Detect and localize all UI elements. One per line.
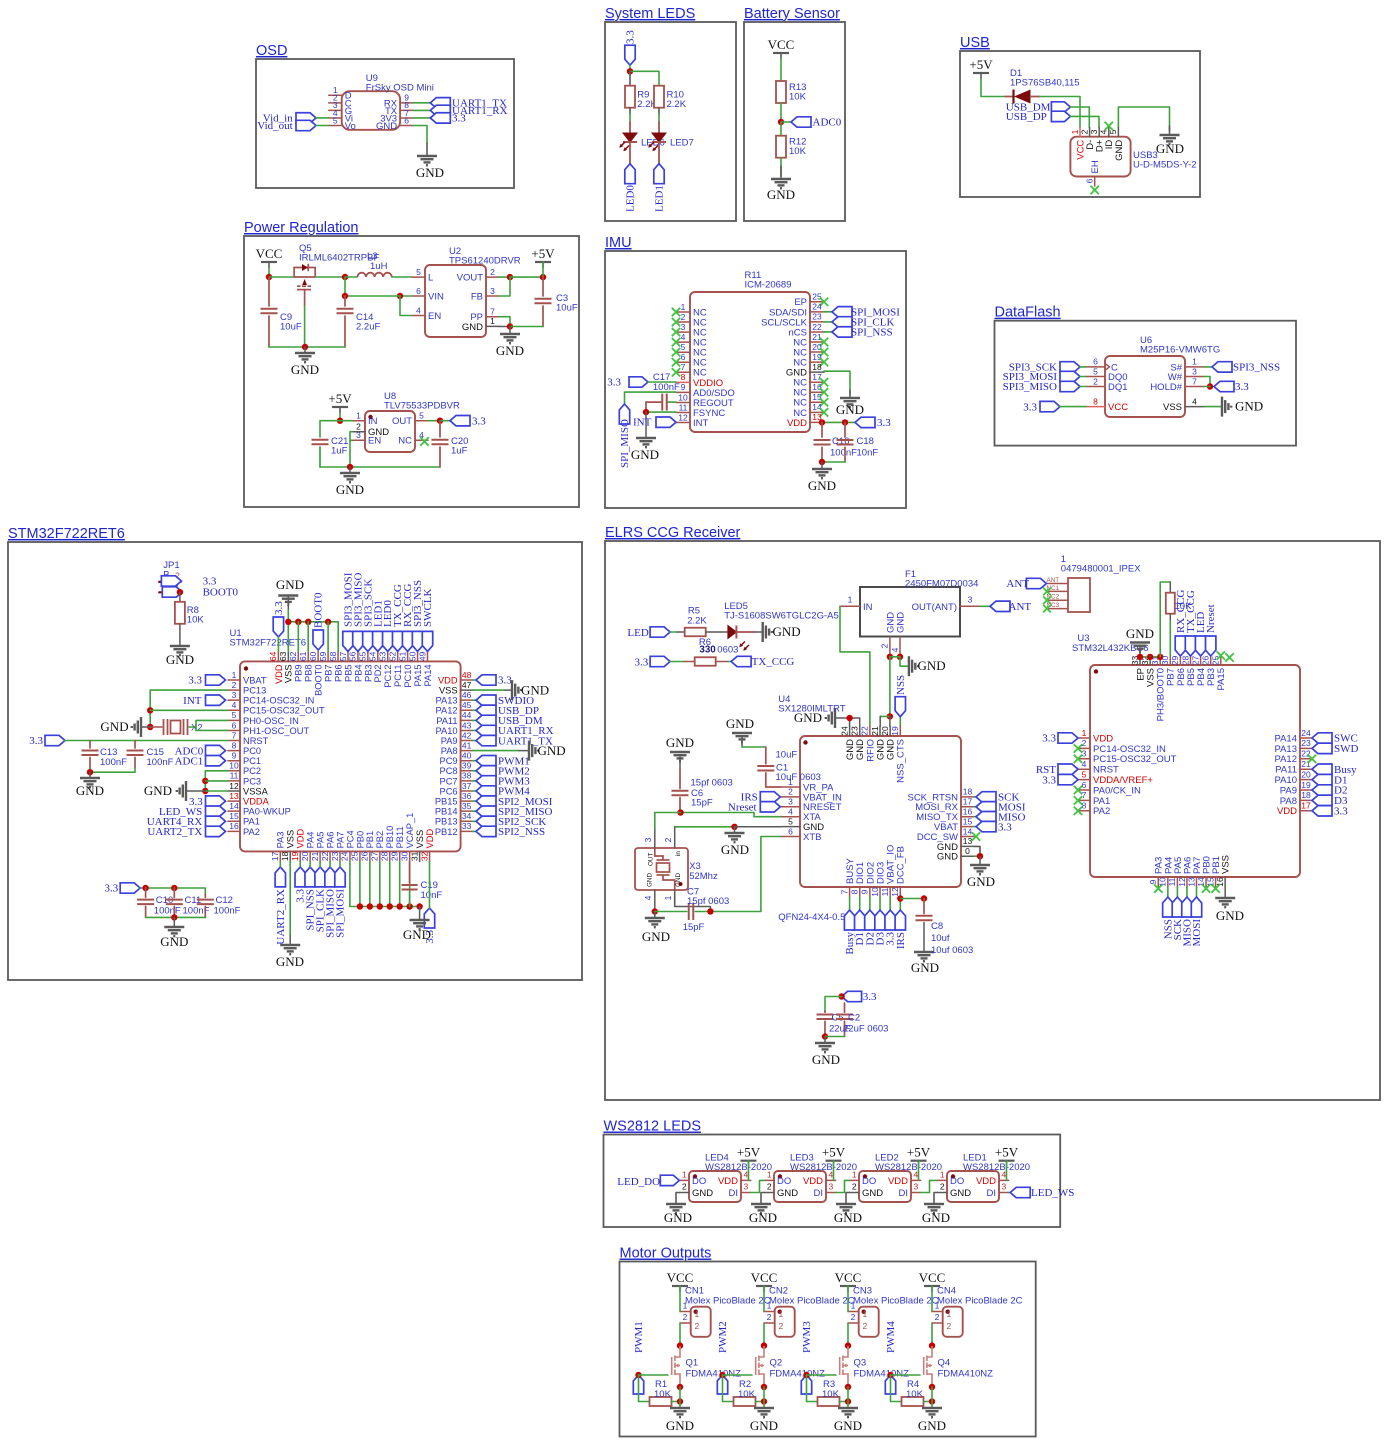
svg-text:23: 23	[1301, 738, 1311, 748]
wire	[473, 770, 476, 772]
wire VCC rail	[268, 268, 270, 277]
svg-text:6: 6	[1093, 357, 1098, 367]
capacitor C12 100nF	[204, 894, 206, 897]
svg-text:10uF: 10uF	[776, 750, 798, 761]
svg-text:1: 1	[767, 1170, 772, 1180]
svg-text:4: 4	[1099, 129, 1109, 134]
U3 pin 2 PC14-OSC32_IN	[1078, 747, 1090, 749]
connector pin NC2	[1047, 599, 1069, 601]
svg-text:3.3: 3.3	[1042, 733, 1056, 745]
wire	[173, 917, 175, 926]
capacitor C18 10nF	[844, 422, 846, 437]
R11 pin 10 REGOUT	[676, 401, 690, 403]
svg-text:IN: IN	[368, 416, 378, 427]
ground	[840, 398, 860, 407]
svg-text:PB6: PB6	[333, 664, 343, 682]
U3 pin 20 PA10	[1300, 779, 1312, 781]
svg-text:15pf 0603: 15pf 0603	[691, 778, 733, 789]
U3 pin 29 PB6	[1179, 656, 1181, 665]
svg-text:PC8: PC8	[440, 766, 458, 776]
svg-text:GND: GND	[922, 1210, 950, 1225]
U1 pin 61 PB8	[307, 651, 309, 661]
svg-text:DI: DI	[729, 1188, 739, 1199]
U4 pin 21 GND	[879, 726, 881, 736]
svg-text:GND: GND	[416, 165, 444, 180]
svg-text:GND: GND	[1114, 140, 1125, 161]
R11 pin 11 FSYNC	[676, 412, 690, 414]
wire	[150, 709, 228, 711]
junction	[177, 589, 183, 595]
svg-text:GND: GND	[773, 624, 801, 639]
wire	[869, 897, 871, 910]
wire	[473, 719, 476, 721]
CN3 pin 2	[848, 1322, 859, 1324]
svg-text:VDD: VDD	[1093, 733, 1113, 744]
U1 pin 52 PC11	[397, 651, 399, 661]
label 3.3	[885, 910, 895, 930]
svg-text:PC3: PC3	[243, 776, 261, 786]
USB3 pin 3 D+	[1098, 128, 1100, 137]
junction	[677, 1342, 683, 1348]
no-connect	[672, 348, 680, 356]
svg-text:GND: GND	[144, 783, 172, 798]
svg-text:BOOT0: BOOT0	[203, 586, 239, 598]
svg-text:GND: GND	[950, 1188, 971, 1199]
R11 pin 8 VDDIO	[676, 381, 690, 383]
junction	[357, 903, 363, 909]
svg-text:Molex PicoBlade 2C: Molex PicoBlade 2C	[937, 1296, 1023, 1307]
svg-text:2: 2	[1082, 738, 1087, 748]
svg-text:ANT: ANT	[1047, 577, 1060, 584]
no-connect	[820, 298, 828, 306]
svg-text:PA13: PA13	[436, 696, 458, 706]
connector pin NC3	[1047, 608, 1069, 610]
svg-text:PA2: PA2	[243, 827, 260, 837]
svg-text:DI: DI	[987, 1188, 997, 1199]
U1 pin 14 PA0-WKUP	[228, 810, 240, 812]
svg-text:2.2uF: 2.2uF	[356, 321, 380, 332]
label SPI2_NSS	[476, 826, 496, 836]
power VCC	[773, 52, 789, 54]
svg-text:GND: GND	[937, 852, 958, 863]
svg-text:5: 5	[232, 710, 237, 720]
svg-text:10K: 10K	[789, 91, 807, 102]
U3 pin 23 PA13	[1300, 747, 1312, 749]
svg-text:PB7: PB7	[324, 664, 334, 682]
U1 pin 11 PC3	[228, 780, 240, 782]
svg-text:PA9: PA9	[441, 736, 458, 746]
svg-text:16: 16	[812, 382, 822, 392]
svg-text:GND: GND	[160, 934, 188, 949]
label SPI3_SCK	[1060, 362, 1080, 372]
wire	[1196, 887, 1198, 897]
wire	[781, 121, 791, 123]
junction	[147, 724, 153, 730]
junction	[887, 713, 893, 719]
label ANT	[1026, 578, 1046, 588]
transistor Q2 FDMA410NZ	[756, 1346, 764, 1387]
svg-text:+5V: +5V	[969, 57, 993, 72]
wire	[339, 861, 341, 867]
ground	[732, 733, 752, 742]
svg-text:PB14: PB14	[435, 807, 458, 817]
svg-text:PA12: PA12	[1274, 754, 1297, 765]
svg-text:2: 2	[935, 1312, 940, 1322]
svg-text:47: 47	[462, 680, 472, 690]
svg-text:UART2_TX: UART2_TX	[147, 826, 202, 838]
resistor R6 330	[695, 657, 716, 666]
svg-text:PC14-OSC32_IN: PC14-OSC32_IN	[243, 696, 314, 706]
svg-text:2: 2	[940, 1182, 945, 1192]
wire GND pin18	[824, 371, 850, 395]
U1 pin 23 PA7	[339, 851, 341, 861]
label RX_CCG	[1175, 636, 1185, 656]
U9 pin 6 GND	[400, 125, 413, 127]
wire	[205, 780, 228, 782]
label ADC0	[206, 745, 226, 755]
wire	[880, 715, 890, 717]
wire	[849, 897, 851, 910]
svg-text:2: 2	[490, 267, 495, 277]
pin 1 DO	[679, 1179, 689, 1181]
svg-text:VSS: VSS	[284, 664, 294, 683]
U1 pin 27 PB2	[379, 851, 381, 861]
svg-text:NSS: NSS	[895, 675, 907, 695]
svg-text:46: 46	[462, 690, 472, 700]
svg-text:PA8: PA8	[1280, 796, 1297, 807]
R11 pin 25 EP	[810, 301, 824, 303]
wire	[629, 65, 631, 71]
svg-text:ANT: ANT	[1006, 578, 1029, 590]
wire	[931, 1323, 933, 1346]
U1 pin 10 PC2	[228, 770, 240, 772]
label LED_WS	[1010, 1187, 1030, 1197]
junction	[819, 419, 825, 425]
svg-text:22: 22	[860, 726, 870, 736]
junction	[202, 778, 208, 784]
wire DI to DO	[836, 1180, 850, 1192]
U1 pin 7 NRST	[228, 740, 240, 742]
svg-text:PWM1: PWM1	[633, 1321, 645, 1353]
svg-text:GND: GND	[895, 612, 906, 633]
wire	[1080, 366, 1086, 368]
svg-text:USB: USB	[960, 35, 990, 51]
svg-text:PB1: PB1	[365, 831, 375, 849]
svg-text:UART2_RX: UART2_RX	[275, 889, 287, 945]
wire VSS	[289, 861, 291, 935]
U1 pin 45 PA12	[461, 709, 473, 711]
U3 pin 9 PA3	[1157, 877, 1159, 887]
junction	[846, 715, 852, 721]
label SPI3_MOSI	[343, 631, 353, 651]
svg-text:IN: IN	[863, 602, 873, 613]
pin 2 GND	[764, 1192, 774, 1194]
svg-text:32: 32	[419, 851, 429, 861]
svg-text:9: 9	[860, 889, 870, 894]
svg-text:38: 38	[462, 771, 472, 781]
section System LEDS	[605, 22, 736, 221]
label UART2_RX	[275, 867, 285, 887]
svg-text:GND: GND	[538, 743, 566, 758]
svg-text:TJ-S1608SW6TGLC2G-A5: TJ-S1608SW6TGLC2G-A5	[724, 610, 839, 621]
wire	[979, 856, 981, 864]
junction	[142, 885, 148, 891]
wire Q5 gate to ground	[304, 290, 306, 306]
U1 pin 30 VCAP_1	[409, 851, 411, 861]
svg-text:SPI2_NSS: SPI2_NSS	[498, 826, 545, 838]
svg-text:21: 21	[812, 332, 822, 342]
svg-text:PC6: PC6	[440, 786, 458, 796]
wire	[825, 1036, 845, 1038]
ground	[754, 1408, 774, 1417]
svg-text:IRS: IRS	[895, 932, 907, 949]
svg-text:in: in	[675, 851, 682, 856]
U1 pin 21 PA5	[319, 851, 321, 861]
wire	[833, 1161, 835, 1181]
svg-text:1: 1	[779, 1309, 784, 1319]
U3 pin 32 VSS	[1149, 656, 1151, 665]
U1 pin 53 PC12	[387, 651, 389, 661]
wire	[277, 637, 279, 651]
svg-text:PC4: PC4	[345, 830, 355, 848]
junction	[842, 419, 848, 425]
svg-text:IMU: IMU	[605, 235, 632, 251]
wire IN to RFIO	[840, 606, 870, 726]
U9 pin 9 RX	[400, 102, 413, 104]
svg-text:11: 11	[230, 771, 239, 781]
junction	[929, 1342, 935, 1348]
svg-text:3.3: 3.3	[998, 821, 1012, 833]
svg-text:VCC: VCC	[835, 1270, 862, 1285]
svg-text:+5V: +5V	[328, 391, 352, 406]
svg-text:4: 4	[681, 332, 686, 342]
wire	[706, 631, 728, 633]
svg-text:6: 6	[1085, 178, 1095, 183]
wire	[974, 796, 976, 798]
wire to R	[723, 1375, 734, 1402]
svg-text:GND: GND	[862, 1188, 883, 1199]
label 3.3	[161, 576, 181, 586]
U3 pin 31 PH3/BOOT0	[1159, 656, 1161, 665]
U3 pin 33 EP	[1139, 656, 1141, 665]
svg-text:1uF: 1uF	[451, 445, 468, 456]
U1 pin 15 PA1	[228, 820, 240, 822]
svg-text:42: 42	[462, 730, 472, 740]
wire	[389, 861, 391, 906]
svg-text:59: 59	[318, 651, 328, 661]
U1 pin 51 PC10	[407, 651, 409, 661]
U1 pin 43 PA10	[461, 729, 473, 731]
svg-text:PC7: PC7	[440, 776, 458, 786]
svg-text:GND: GND	[276, 954, 304, 969]
wire	[931, 1387, 933, 1407]
X3 pin 2	[674, 827, 676, 848]
label D1	[855, 910, 865, 930]
ground	[295, 353, 315, 362]
wire	[320, 421, 340, 437]
capacitor C14 2.2uF	[344, 296, 346, 306]
svg-text:SPI3_NSS: SPI3_NSS	[1233, 362, 1280, 374]
R11 pin 3 NC	[676, 331, 690, 333]
U4 pin 10 DIO3	[879, 887, 881, 897]
svg-text:8: 8	[681, 372, 686, 382]
R11 pin 14 NC	[810, 411, 824, 413]
U1 pin 9 PC1	[228, 760, 240, 762]
svg-text:LED_WS: LED_WS	[1031, 1187, 1074, 1199]
capacitor C19 10nF	[409, 861, 411, 883]
ground	[645, 918, 665, 927]
U4 pin 2 VBAT_IN	[781, 796, 800, 798]
crystal X2	[150, 726, 162, 728]
wire	[679, 1387, 681, 1407]
label 3.3	[842, 991, 862, 1001]
svg-text:22: 22	[812, 322, 822, 332]
no-connect	[1225, 653, 1233, 661]
label MOSI	[1191, 897, 1201, 917]
wire	[319, 861, 321, 867]
svg-text:PC14-OSC32_IN: PC14-OSC32_IN	[1093, 744, 1166, 755]
svg-text:PC9: PC9	[440, 756, 458, 766]
ground	[177, 781, 186, 801]
svg-text:100nF: 100nF	[214, 906, 241, 917]
svg-text:1: 1	[851, 1301, 856, 1311]
svg-text:VDD: VDD	[1277, 806, 1297, 817]
svg-text:29: 29	[1170, 656, 1180, 666]
capacitor C15 100nF	[134, 741, 136, 749]
wire FSYNC	[646, 411, 676, 413]
svg-text:15: 15	[963, 816, 973, 826]
label INT	[206, 695, 226, 705]
svg-text:1: 1	[1070, 129, 1080, 134]
ground	[1160, 135, 1180, 144]
capacitor C10 100nF	[145, 888, 147, 897]
svg-text:2: 2	[1079, 129, 1089, 134]
U1 pin 58 PB6	[337, 651, 339, 661]
wire	[754, 631, 763, 633]
junction	[305, 619, 311, 625]
label SPI3_MISO	[1060, 381, 1080, 391]
svg-text:+5V: +5V	[995, 1145, 1019, 1160]
svg-text:3.3: 3.3	[1235, 381, 1249, 393]
svg-text:SPI_MISO: SPI_MISO	[619, 419, 631, 468]
ground	[922, 1408, 942, 1417]
wire	[146, 916, 206, 918]
svg-text:17: 17	[270, 851, 280, 861]
R11 pin 2 NC	[676, 321, 690, 323]
U9 pin 3 G	[329, 109, 342, 111]
no-connect	[1074, 786, 1082, 794]
svg-text:6: 6	[404, 115, 409, 125]
svg-text:GND: GND	[808, 478, 836, 493]
svg-text:GND: GND	[692, 1188, 713, 1199]
svg-text:VCC: VCC	[667, 1270, 694, 1285]
U1 pin 35 PB14	[461, 810, 473, 812]
svg-text:100nF: 100nF	[147, 757, 174, 768]
wire	[189, 720, 228, 727]
svg-text:25: 25	[350, 851, 360, 861]
no-connect	[672, 358, 680, 366]
label UART1_RX	[476, 725, 496, 735]
label D3	[875, 910, 885, 930]
svg-text:SPI_NSS: SPI_NSS	[851, 327, 893, 339]
svg-text:330: 330	[699, 645, 716, 656]
wire	[499, 326, 510, 328]
wire	[1186, 887, 1188, 897]
LED LED7	[658, 122, 660, 133]
wire	[349, 467, 351, 472]
svg-text:56: 56	[348, 651, 358, 661]
svg-text:Q2: Q2	[770, 1358, 783, 1369]
svg-text:10nF: 10nF	[857, 448, 879, 459]
svg-text:GND: GND	[276, 577, 304, 592]
ground	[970, 865, 990, 874]
capacitor C17 100nF	[668, 401, 676, 403]
no-connect	[820, 408, 828, 416]
svg-text:DI: DI	[899, 1188, 909, 1199]
svg-text:2.2K: 2.2K	[667, 99, 687, 110]
U3 pin 6 PA0/CK_IN	[1078, 789, 1090, 791]
capacitor C16 100nF	[821, 422, 823, 437]
svg-text:54: 54	[368, 651, 378, 661]
wire	[734, 827, 736, 832]
svg-text:LED: LED	[627, 627, 648, 639]
ground	[132, 717, 141, 737]
wire bottom bus	[350, 861, 420, 906]
svg-text:GND: GND	[664, 1210, 692, 1225]
wire GND	[934, 1193, 937, 1204]
ground	[417, 156, 437, 165]
ground	[636, 438, 656, 447]
svg-text:51: 51	[397, 651, 407, 661]
svg-text:1: 1	[1192, 357, 1197, 367]
junction	[845, 1398, 851, 1404]
wire	[1080, 376, 1086, 378]
R11 pin 12 INT	[676, 422, 690, 424]
svg-text:GND: GND	[812, 1052, 840, 1067]
svg-text:26: 26	[1201, 656, 1211, 666]
wire	[309, 861, 311, 867]
svg-text:LED1: LED1	[654, 185, 666, 212]
svg-text:1: 1	[490, 316, 495, 326]
junction	[302, 344, 308, 350]
U6 pin 2 DQ1	[1086, 386, 1105, 388]
U4 pin 9 DIO2	[869, 887, 871, 897]
ground	[278, 596, 298, 605]
U1 pin 5 PH0-OSC_IN	[228, 719, 240, 721]
label PWM2	[476, 766, 496, 776]
label SPI_NSS	[305, 867, 315, 887]
ground	[838, 1408, 858, 1417]
junction	[627, 68, 633, 74]
svg-text:VSS: VSS	[1221, 855, 1232, 874]
wire	[339, 413, 341, 421]
svg-text:DI: DI	[814, 1188, 824, 1199]
USB3 pin 5 GND	[1117, 128, 1119, 137]
svg-text:TPS61240DRVR: TPS61240DRVR	[449, 255, 521, 266]
svg-text:2: 2	[681, 312, 686, 322]
section OSD	[256, 59, 514, 188]
label 3.3	[976, 821, 996, 831]
capacitor C7 15pF	[655, 911, 687, 913]
wire	[289, 936, 291, 944]
power VCC channel 3	[840, 1285, 856, 1287]
svg-text:VBAT: VBAT	[243, 675, 267, 685]
svg-text:PB8: PB8	[304, 664, 314, 682]
label ANT	[990, 601, 1010, 611]
svg-text:ANT: ANT	[1009, 601, 1032, 613]
svg-text:PA6: PA6	[325, 832, 335, 849]
svg-text:4: 4	[232, 700, 237, 710]
